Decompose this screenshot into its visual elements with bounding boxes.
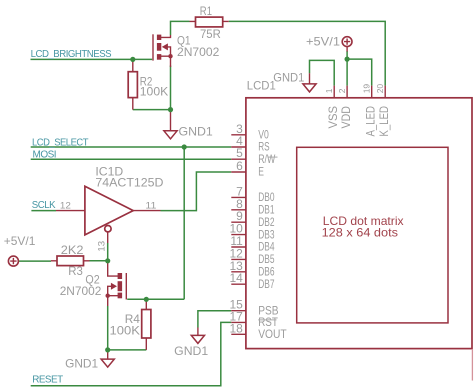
wire LCD pin 15 PSB to GND xyxy=(198,311,231,328)
node junction Q2 source/R4/GND xyxy=(105,347,110,352)
svg-text:12: 12 xyxy=(60,200,71,210)
svg-text:VOUT: VOUT xyxy=(258,327,287,341)
svg-text:6: 6 xyxy=(236,159,243,173)
node junction LCD_SELECT branch xyxy=(182,144,187,149)
resistor R3 2K2 xyxy=(51,256,90,266)
LCD pin numbers top xyxy=(324,84,385,94)
svg-text:18: 18 xyxy=(229,321,243,335)
svg-text:K_LED: K_LED xyxy=(377,106,391,137)
ground GND1 at LCD VSS xyxy=(303,73,316,92)
wire +5V bottom supply to R3 left xyxy=(18,260,51,262)
LCD1 connector outer box xyxy=(246,98,472,349)
wire Q2 source down to GND node xyxy=(107,306,109,350)
svg-text:GND1: GND1 xyxy=(273,71,304,85)
ground GND1 at Q2 source xyxy=(101,350,114,367)
svg-text:VSS: VSS xyxy=(326,106,340,129)
wire +5V top supply to VDD pin 2 xyxy=(346,51,348,86)
svg-text:2N7002: 2N7002 xyxy=(177,45,220,59)
node junction LCD_BRIGHTNESS/R2 xyxy=(130,57,135,62)
transistor Q2 2N7002 xyxy=(106,261,127,306)
wire Q2 gate to R4 top and LCD_SELECT branch xyxy=(127,298,184,300)
wire IC1D pin 13 down to node xyxy=(107,243,109,261)
op-amp buffer IC1D 74ACT125D xyxy=(56,186,161,243)
wire LCD_SELECT branch down to Q2 gate xyxy=(183,147,185,299)
LCD pin numbers left xyxy=(229,122,243,335)
overline on W of R/W xyxy=(268,156,277,158)
svg-text:GND1: GND1 xyxy=(179,125,214,139)
svg-text:GND1: GND1 xyxy=(174,344,208,358)
wire GND to VSS pin 1 xyxy=(310,60,335,85)
svg-text:E: E xyxy=(258,165,264,179)
svg-text:14: 14 xyxy=(229,271,243,285)
svg-text:A_LED: A_LED xyxy=(364,106,378,137)
svg-text:2N7002: 2N7002 xyxy=(60,284,102,298)
svg-text:100K: 100K xyxy=(110,324,140,338)
LCD top pin stubs xyxy=(334,86,385,98)
resistor R2 100K xyxy=(128,59,137,109)
node junction R2 bottom/Q1 source xyxy=(168,107,173,112)
svg-text:19: 19 xyxy=(362,84,372,94)
partial component at right edge xyxy=(471,349,473,381)
LCD pin names top xyxy=(326,106,391,137)
wire net LCD_BRIGHTNESS to Q1 gate and R2 top xyxy=(31,58,153,60)
svg-text:11: 11 xyxy=(145,200,156,210)
wire IC1D output pin 11 to LCD pin 6 E xyxy=(161,172,232,211)
svg-text:75R: 75R xyxy=(200,27,221,41)
svg-text:LCD_SELECT: LCD_SELECT xyxy=(32,137,88,148)
svg-text:LCD1: LCD1 xyxy=(247,79,276,93)
svg-text:VDD: VDD xyxy=(339,106,353,129)
svg-text:13: 13 xyxy=(96,241,106,252)
svg-text:74ACT125D: 74ACT125D xyxy=(95,175,163,189)
LCD left pin stubs xyxy=(231,135,246,334)
wire net MOSI to pin 5 R/W xyxy=(31,158,232,160)
node junction +5V xyxy=(345,57,350,62)
wire Q1 source down to GND node xyxy=(170,66,172,110)
wire net SCLK to IC1D input pin 12 xyxy=(31,210,56,212)
LCD pin names left xyxy=(258,128,287,342)
wire R4 bottom to GND node xyxy=(108,349,147,351)
wire Q1 drain up to R1 left xyxy=(171,21,190,35)
supply +5V/1 bottom xyxy=(8,256,18,266)
svg-text:100K: 100K xyxy=(140,85,168,99)
wire R3 right to pin 13 node xyxy=(90,260,108,262)
wire +5V node to A_LED pin 19 xyxy=(347,59,372,86)
supply +5V/1 top xyxy=(342,37,352,52)
svg-text:RESET: RESET xyxy=(32,375,63,386)
wire R1 right to LCD pin 20 xyxy=(229,21,386,85)
LCD display inner box xyxy=(297,147,448,323)
wire net LCD_SELECT to pin 4 RS xyxy=(31,146,232,148)
resistor R4 100K xyxy=(142,299,151,350)
transistor Q1 2N7002 xyxy=(153,34,173,67)
node junction pin13/R3/Q2 drain xyxy=(105,258,110,263)
ground GND1 at R2/Q1 source xyxy=(164,110,177,139)
overline on RST xyxy=(258,319,276,321)
wire net RESET to LCD pin 17 RST xyxy=(31,322,232,385)
svg-text:1: 1 xyxy=(324,88,334,93)
svg-text:20: 20 xyxy=(375,84,385,94)
svg-text:SCLK: SCLK xyxy=(32,200,56,211)
svg-text:128 x 64 dots: 128 x 64 dots xyxy=(322,225,398,239)
svg-text:GND1: GND1 xyxy=(65,357,98,371)
svg-text:+5V/1: +5V/1 xyxy=(4,234,36,248)
svg-text:2K2: 2K2 xyxy=(61,243,84,257)
resistor R1 75R xyxy=(190,17,229,27)
svg-text:R3: R3 xyxy=(68,264,83,278)
svg-text:2: 2 xyxy=(337,88,347,93)
wire R2 bottom to Q1 source node xyxy=(133,109,171,111)
svg-text:DB7: DB7 xyxy=(258,277,275,291)
ground GND1 at LCD PSB xyxy=(191,328,204,344)
svg-text:R1: R1 xyxy=(200,4,212,18)
svg-text:LCD_BRIGHTNESS: LCD_BRIGHTNESS xyxy=(31,49,112,60)
svg-text:+5V/1: +5V/1 xyxy=(306,34,340,48)
node junction Q2 gate/R4 xyxy=(144,297,149,302)
svg-text:MOSI: MOSI xyxy=(33,149,57,160)
